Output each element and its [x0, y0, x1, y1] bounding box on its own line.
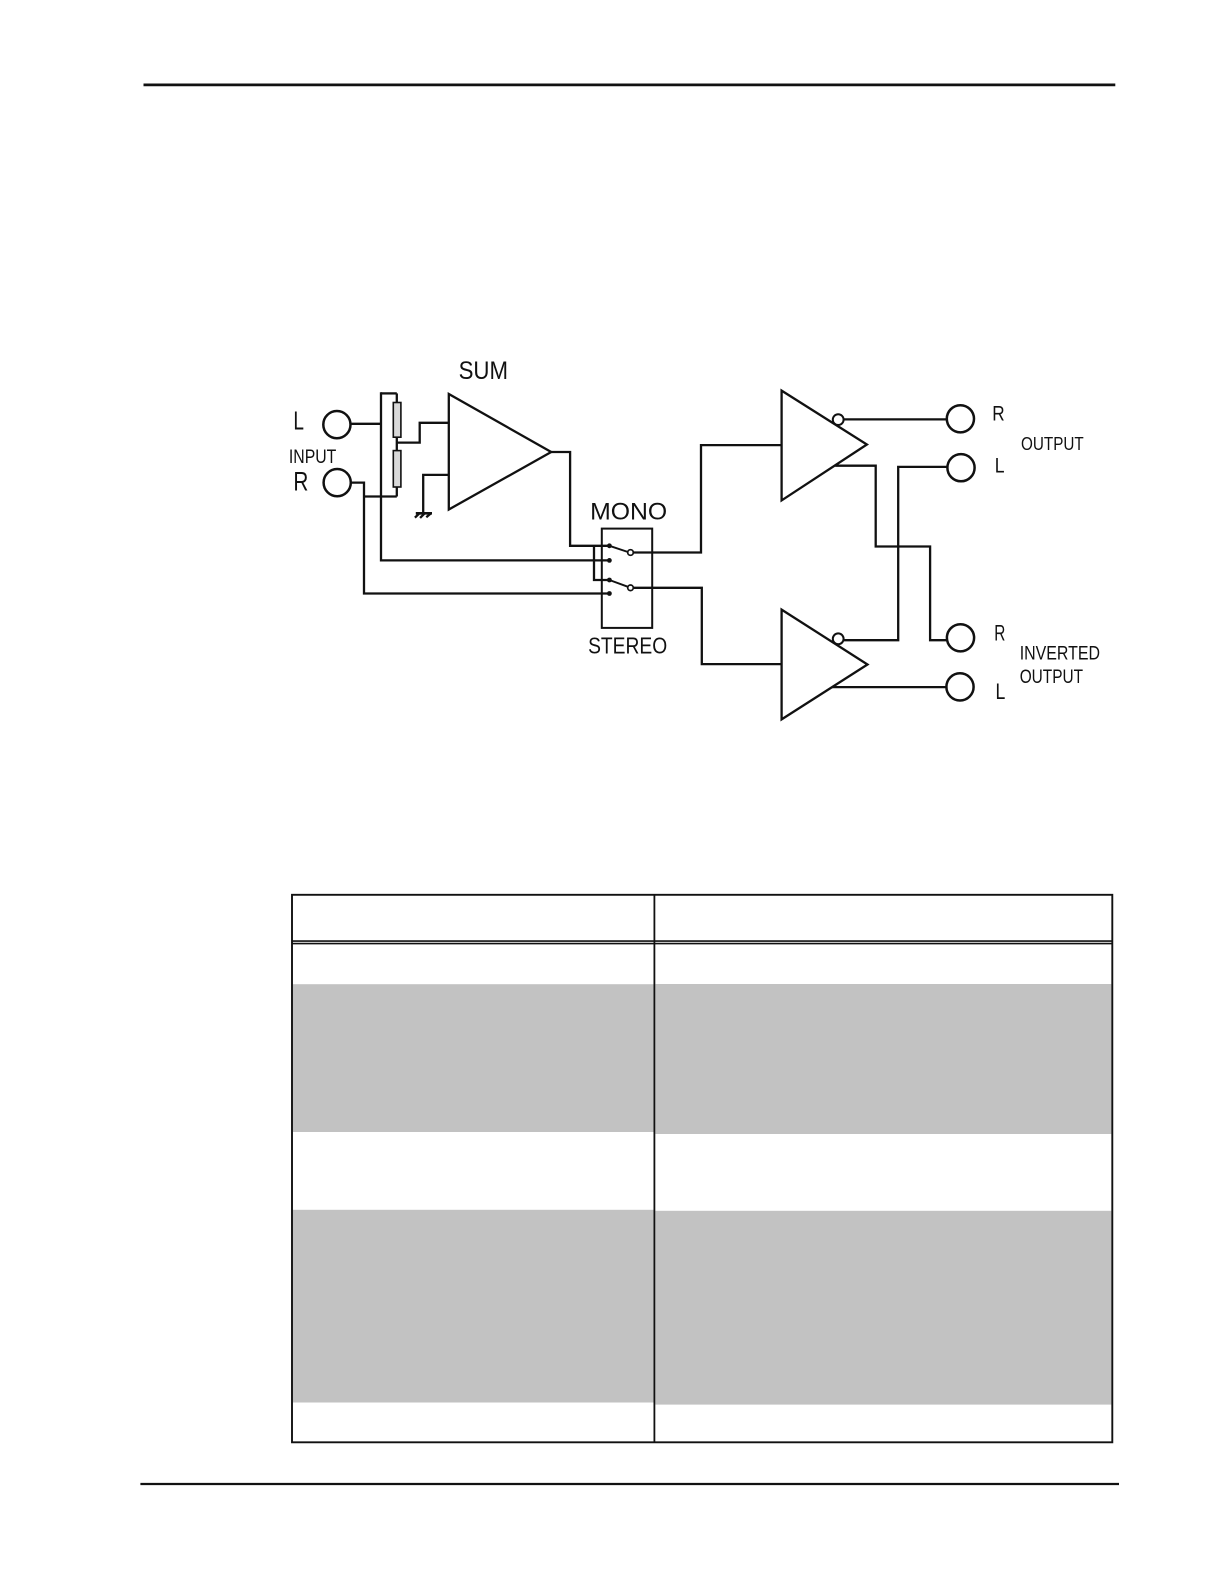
table shaded row 2 left cell	[293, 1210, 654, 1403]
wire: top amp lower tap to inverted R jack	[835, 466, 947, 641]
wire: R jack down to switch contact 4 (stereo R feed)	[351, 483, 610, 594]
switch throw 1	[628, 550, 634, 556]
ground symbol	[416, 512, 432, 515]
svg-text:R: R	[992, 403, 1004, 426]
op-amp U2 (output buffer)	[782, 391, 867, 501]
svg-text:R: R	[994, 621, 1005, 646]
table shaded row 2 right cell	[655, 1211, 1111, 1405]
wire: throw 2 to inverted output amp	[634, 588, 782, 664]
output jack R	[947, 405, 974, 432]
op-amp U1 SUM	[449, 394, 551, 510]
svg-text:L: L	[995, 453, 1005, 477]
wire: SUM amp lower input and ground stem	[423, 475, 449, 513]
wire: throw 1 to top output amp	[634, 445, 782, 552]
wire: segment below resistor R2	[396, 486, 398, 497]
svg-text:MONO: MONO	[590, 499, 667, 526]
wire: resistor tap to SUM amp input	[397, 423, 449, 443]
table shaded row 1 left cell	[293, 984, 654, 1132]
wire: SUM output to switch contact 1	[551, 452, 609, 546]
inversion bubble U3	[833, 633, 844, 644]
wire: network left edge down to switch contact 2 (stereo L feed)	[381, 392, 609, 560]
wire: segment between resistors R1 and R2	[396, 436, 398, 451]
table shaded row 1 right cell	[655, 984, 1111, 1134]
output jack L	[947, 454, 974, 481]
switch blade 1 (pole 1, mono position)	[609, 546, 628, 552]
wire: L jack to summing network	[351, 423, 383, 425]
inverted output jack R	[947, 624, 974, 651]
inversion bubble U2	[833, 414, 844, 425]
inverted output jack L	[946, 673, 973, 700]
switch contact 2 (stereo L)	[607, 558, 612, 563]
wire: branch to switch contact 3	[594, 546, 609, 580]
svg-text:INVERTED: INVERTED	[1020, 643, 1100, 665]
svg-text:SUM: SUM	[459, 358, 508, 385]
table header double line (lower)	[292, 943, 1112, 945]
switch contact 3 (sum)	[607, 578, 612, 583]
op-amp U3 (inverted output buffer)	[782, 610, 868, 720]
switch throw 2	[628, 585, 634, 591]
svg-text:OUTPUT: OUTPUT	[1020, 666, 1083, 688]
table column divider	[653, 895, 655, 1443]
bottom horizontal rule	[140, 1483, 1119, 1485]
input jack L	[323, 411, 350, 438]
table outer border	[292, 895, 1112, 1443]
wire: top amp bubble to output R jack	[844, 418, 947, 420]
summing network frame (top edge)	[381, 392, 397, 394]
switch S1 box	[602, 529, 652, 628]
wire: bottom amp bubble to output L jack	[844, 467, 947, 640]
resistor R1 (summing, L)	[393, 403, 401, 438]
svg-text:R: R	[293, 467, 308, 497]
input jack R	[324, 469, 351, 496]
resistor R2 (summing, R)	[393, 451, 401, 487]
wire: bottom amp lower tap to inverted L jack	[831, 686, 947, 688]
node: network bottom edge / R junction	[364, 495, 397, 497]
wire: right edge segment above resistor R1	[396, 393, 398, 403]
switch contact 1 (sum)	[607, 543, 612, 548]
svg-text:L: L	[293, 405, 304, 435]
svg-text:INPUT: INPUT	[289, 446, 336, 468]
svg-text:L: L	[996, 679, 1006, 704]
table header double line (upper)	[292, 940, 1112, 942]
svg-text:STEREO: STEREO	[588, 632, 667, 658]
switch contact 4 (stereo R)	[607, 591, 612, 596]
switch blade 2 (pole 2, mono position)	[609, 580, 628, 587]
svg-text:OUTPUT: OUTPUT	[1021, 433, 1084, 454]
top horizontal rule	[144, 84, 1116, 87]
